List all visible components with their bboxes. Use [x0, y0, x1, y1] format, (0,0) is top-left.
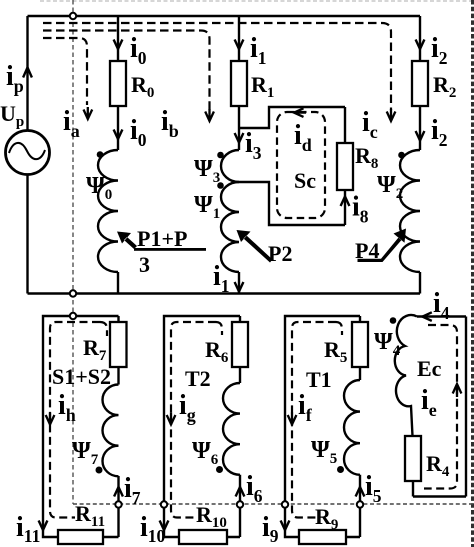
arrow ie up (dashed loop): [453, 384, 462, 397]
node i5: [357, 501, 363, 507]
inductor coil Psi3 (top bump): [221, 150, 239, 182]
svg-text:Ec: Ec: [417, 356, 442, 381]
T1 loop outer wire: [285, 316, 360, 537]
dashed loop ib: [43, 31, 210, 111]
arrow i2 bottom down: [416, 131, 425, 141]
winding dot Psi2: [398, 152, 405, 159]
node T1 left: [282, 501, 288, 507]
wire: coil Psi6 to R10: [227, 475, 240, 537]
wire: R0 to coil: [117, 106, 119, 150]
svg-text:ie: ie: [421, 385, 437, 420]
Ec loop right wire: [465, 317, 467, 497]
source Up circle: [6, 131, 50, 175]
wire: Sc bottom tap: [239, 182, 345, 225]
svg-text:i8: i8: [352, 192, 369, 227]
construction dashed horizontal through bottom nodes: [73, 503, 474, 505]
dashed loop ig: [171, 322, 216, 518]
arrow i8 up: [341, 197, 350, 207]
resistor R5: [352, 322, 368, 367]
svg-text:ib: ib: [161, 106, 179, 141]
svg-text:Ψ2: Ψ2: [377, 172, 403, 202]
wire: R5 branch top: [359, 316, 361, 322]
Ec loop bottom wire: [413, 495, 466, 497]
svg-text:R1: R1: [251, 72, 274, 101]
dashed loop ig right corner: [216, 322, 222, 335]
svg-text:ig: ig: [179, 390, 196, 425]
svg-text:i5: i5: [365, 471, 382, 506]
wire: Sc top tap: [239, 107, 345, 128]
arrow ih down (dashed loop): [46, 413, 55, 425]
wire: R5 to coil Psi5: [359, 367, 361, 380]
inductor coil Psi0: [98, 150, 118, 272]
wire: coil Psi1 to bottom bus: [238, 272, 240, 294]
arrow P4 pointer: [358, 229, 407, 263]
dashed loop ih right corner: [100, 322, 107, 336]
resistor R1: [231, 61, 247, 106]
fraction bar of (P1+P)/3: [134, 248, 206, 251]
wire: R4 bottom: [412, 481, 414, 497]
right page-edge dashed line: [471, 0, 474, 547]
svg-text:R8: R8: [355, 143, 378, 172]
resistor R8: [337, 143, 353, 190]
winding dot Psi4: [390, 317, 397, 324]
arrow i11 down: [39, 521, 48, 531]
inductor coil Psi1 (three bumps): [221, 182, 239, 272]
arrow ib down (dashed loop): [205, 109, 214, 121]
svg-text:ip: ip: [6, 61, 24, 96]
top page-edge dotted line: [40, 0, 474, 2]
node i6: [237, 501, 243, 507]
svg-text:P1+P: P1+P: [137, 226, 187, 251]
svg-text:P4: P4: [355, 238, 379, 263]
wire: left source branch upper: [26, 16, 28, 131]
arrow i1 top down: [235, 40, 244, 50]
svg-text:Ψ6: Ψ6: [192, 438, 219, 468]
svg-text:i7: i7: [124, 473, 141, 508]
svg-text:Ψ3: Ψ3: [194, 156, 220, 186]
dashed loop ih: [50, 322, 100, 518]
svg-text:if: if: [298, 390, 313, 425]
S1+S2 loop outer wire: [43, 316, 119, 537]
svg-text:id: id: [294, 120, 312, 155]
wire: R1 branch top: [238, 16, 240, 61]
svg-text:R9: R9: [315, 504, 338, 533]
svg-text:i1: i1: [213, 261, 230, 296]
wire: R0 branch top: [117, 16, 119, 61]
inductor coil Psi6: [223, 383, 240, 475]
resistor R2: [412, 61, 428, 106]
winding dot Psi0: [97, 151, 104, 158]
svg-text:R5: R5: [324, 337, 347, 366]
arrow i5 up: [356, 487, 365, 497]
wire: coil Psi0 to bottom bus: [117, 272, 119, 294]
winding dot Psi7: [96, 467, 103, 474]
arrow i6 up: [236, 487, 245, 497]
svg-text:R4: R4: [426, 451, 450, 480]
svg-text:Up: Up: [0, 101, 24, 130]
svg-text:T1: T1: [306, 367, 332, 392]
dashed loop ia: [43, 38, 87, 105]
node i7: [115, 501, 121, 507]
node at top bus: [70, 13, 76, 19]
wire: top bus: [28, 15, 421, 17]
winding dot Psi3: [217, 152, 224, 159]
source sine wave: [9, 143, 45, 159]
wire: R6 branch top: [239, 316, 241, 322]
winding dot Psi6: [216, 466, 223, 473]
resistor R9: [299, 530, 346, 544]
svg-text:Ψ7: Ψ7: [72, 438, 99, 468]
dashed loop id rounded rectangle: [277, 112, 325, 218]
svg-text:i6: i6: [246, 471, 263, 506]
construction dotted vertical at node column: [72, 0, 74, 504]
wire: bottom bus of top section: [28, 292, 421, 294]
svg-text:ia: ia: [63, 106, 80, 141]
arrow ia down (dashed loop): [84, 107, 93, 119]
arrow ic down (dashed loop): [387, 109, 396, 121]
resistor R4: [405, 436, 421, 481]
winding dot Psi5: [337, 466, 344, 473]
wire: coil Psi7 to R11: [103, 476, 119, 537]
arrow id left (dashed loop): [294, 108, 306, 117]
resistor R7: [110, 322, 127, 367]
svg-text:i0: i0: [130, 115, 147, 150]
node T2 left: [161, 501, 167, 507]
node at bottom bus of top section: [70, 290, 76, 296]
svg-text:i2: i2: [431, 33, 448, 68]
wire: R2 branch top: [419, 16, 421, 61]
svg-text:R2: R2: [433, 72, 456, 101]
resistor R11: [58, 530, 103, 544]
svg-text:i1: i1: [250, 33, 267, 68]
inductor coil Psi7: [103, 385, 119, 477]
wire: R8 bottom to Sc bottom: [344, 190, 346, 225]
resistor R0: [110, 61, 126, 106]
svg-text:R0: R0: [131, 72, 154, 101]
svg-text:R6: R6: [205, 337, 229, 366]
svg-text:i0: i0: [130, 33, 147, 68]
inductor coil Psi2: [400, 150, 420, 272]
wire: R1 to coil with Sc tap: [238, 106, 240, 150]
inductor coil Psi4: [395, 315, 417, 436]
svg-text:ih: ih: [58, 390, 76, 425]
svg-text:i9: i9: [262, 512, 279, 546]
svg-text:i4: i4: [433, 288, 450, 323]
svg-text:P2: P2: [268, 241, 292, 266]
wire: R7 branch top: [117, 316, 119, 322]
resistor R6: [232, 322, 248, 367]
T2 loop outer wire: [164, 316, 240, 537]
arrow i2 top down: [416, 40, 425, 50]
svg-text:R7: R7: [83, 335, 107, 364]
wire: coil Psi5 to R9: [346, 475, 360, 537]
wire: left source branch lower: [26, 175, 28, 294]
arrow i10 down: [160, 521, 169, 531]
winding dot Psi1: [217, 182, 224, 189]
arrow i9 down: [281, 521, 290, 531]
arrow if down (dashed loop): [288, 413, 297, 425]
arrow i0 bottom down: [114, 130, 123, 140]
arrow i4 left: [422, 312, 431, 321]
wire: R2 to coil: [419, 106, 421, 150]
wire: R6 to coil Psi6: [239, 367, 241, 383]
arrow i1 bottom down: [235, 282, 244, 292]
inductor coil Psi5: [344, 380, 360, 475]
wire: Sc right upper to R8: [344, 107, 346, 143]
arrow P2 pointer: [237, 230, 273, 263]
arrow i7 up: [114, 487, 123, 497]
arrow ig down (dashed loop): [167, 413, 176, 425]
arrow i3 down: [235, 133, 244, 143]
svg-text:Ψ1: Ψ1: [194, 192, 220, 222]
svg-text:T2: T2: [185, 366, 211, 391]
dashed loop if: [292, 322, 336, 518]
arrow i0 top down: [114, 40, 123, 50]
svg-text:i3: i3: [245, 128, 262, 163]
svg-text:R11: R11: [75, 501, 105, 530]
svg-text:i10: i10: [140, 512, 166, 546]
dashed loop if right corner: [336, 322, 342, 335]
dashed loop ic: [43, 23, 391, 110]
resistor R10: [179, 530, 227, 544]
svg-text:Sc: Sc: [294, 168, 316, 193]
dashed loop ie: [424, 325, 457, 489]
arrow ip up: [23, 68, 32, 78]
svg-text:3: 3: [139, 252, 150, 277]
svg-text:i2: i2: [431, 115, 448, 150]
svg-text:Ψ5: Ψ5: [311, 437, 337, 467]
Ec loop top wire: [417, 315, 466, 317]
arrow P1 pointer: [117, 232, 137, 250]
node at S1+S2 loop top: [70, 313, 76, 319]
wire: coil Psi2 to bottom bus: [419, 272, 421, 294]
wire: R7 to coil Psi7: [117, 367, 119, 385]
svg-text:S1+S2: S1+S2: [52, 364, 111, 389]
svg-text:R10: R10: [196, 502, 227, 531]
svg-text:i11: i11: [16, 512, 40, 546]
svg-text:ic: ic: [362, 107, 378, 142]
